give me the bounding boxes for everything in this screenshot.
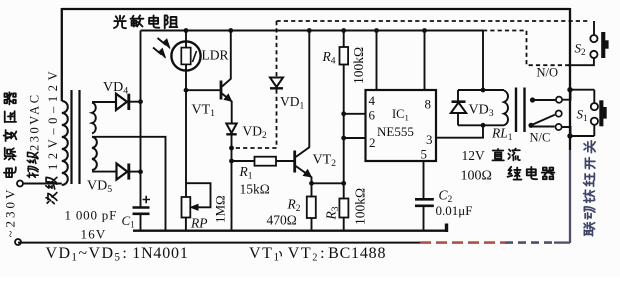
- svg-text:12V: 12V: [462, 148, 486, 163]
- svg-text:6: 6: [369, 108, 376, 123]
- svg-text:4: 4: [369, 93, 376, 108]
- svg-text:0.01μF: 0.01μF: [436, 203, 473, 218]
- wire VT2 emitter node: [312, 182, 344, 184]
- svg-text:470Ω: 470Ω: [267, 213, 297, 228]
- label ciji (secondary) rotated: [46, 193, 57, 204]
- svg-text:~230V: ~230V: [3, 187, 18, 238]
- wire primary bottom to terminal: [23, 183, 62, 185]
- relay core: [516, 88, 525, 133]
- wire bottom ground rail: [133, 230, 447, 232]
- transistor VT1: [220, 81, 223, 100]
- relay contact arm and N/C: [528, 123, 533, 128]
- ground stub rail end: [445, 224, 448, 233]
- terminal ~230V lower: [15, 239, 21, 245]
- diode VD4: [116, 94, 127, 110]
- photoresistor LDR: [185, 31, 187, 42]
- node VD4/VD5 junction vertical: [140, 31, 142, 173]
- wire VD4 to node: [128, 101, 141, 103]
- svg-text:N/C: N/C: [530, 131, 551, 145]
- label dianyuan bianyaqi (power transformer) rotated: [4, 167, 16, 177]
- wire LDR bottom to VT1 base: [186, 71, 220, 91]
- capacitor C2: [415, 198, 434, 201]
- resistor R1: [232, 160, 255, 162]
- wire +12V down to relay: [482, 31, 484, 91]
- LDR light arrows: [158, 38, 167, 45]
- label guangmin dianzu (photoresistor): [114, 15, 177, 28]
- svg-text:100kΩ: 100kΩ: [353, 188, 368, 225]
- label zhiliu (DC): [492, 149, 519, 161]
- wire dashed trigger rail: [277, 20, 591, 22]
- svg-text:1MΩ: 1MΩ: [213, 195, 228, 223]
- wire secondary top to VD4: [92, 101, 116, 103]
- node B (N/C, S1, bus): [567, 133, 572, 138]
- transformer core: [72, 90, 80, 184]
- resistor R4: [341, 28, 346, 33]
- svg-text:N/O: N/O: [537, 66, 559, 80]
- pushbutton S2: [590, 35, 597, 42]
- resistor R3: [343, 183, 345, 198]
- potentiometer RP: [185, 90, 187, 197]
- wire VD5 to node: [129, 171, 141, 173]
- svg-text:12V–0–12V: 12V–0–12V: [46, 67, 60, 170]
- resistor R2: [311, 183, 313, 197]
- pushbutton S1: [593, 90, 595, 103]
- relay coil RL1: [504, 91, 508, 126]
- wire pin8: [424, 31, 426, 91]
- transformer T secondary bottom winding: [92, 137, 97, 170]
- diode VD1: [270, 78, 283, 88]
- wire secondary center tap: [92, 137, 166, 231]
- svg-text:1 000 pF: 1 000 pF: [65, 208, 118, 223]
- wire dashed relay-S2 link: [483, 31, 569, 66]
- wire RP wiper loop: [186, 183, 211, 207]
- svg-text:5: 5: [421, 147, 428, 162]
- svg-text:15kΩ: 15kΩ: [240, 182, 270, 197]
- op-amp U1 IC1 NE555 box: [366, 90, 437, 161]
- svg-text:NE555: NE555: [377, 124, 414, 139]
- svg-text:3: 3: [426, 132, 433, 147]
- diode VD2: [226, 124, 236, 134]
- wire left vertical to primary: [61, 8, 63, 101]
- svg-text:230VAC: 230VAC: [28, 92, 42, 151]
- svg-text:RP: RP: [190, 216, 208, 231]
- wire +12V rail: [141, 30, 484, 32]
- wire S2 bottom return: [568, 58, 594, 65]
- wire secondary bottom to VD5: [92, 171, 117, 173]
- diode VD5: [117, 164, 128, 180]
- wire dashed S2 drop: [593, 21, 595, 35]
- capacitor C1 electrolytic: [140, 171, 142, 207]
- relay contact N/O: [530, 97, 535, 102]
- ideographic comma in caption: [280, 252, 282, 256]
- transistor VT2: [293, 151, 296, 173]
- svg-text:LDR: LDR: [202, 48, 229, 63]
- svg-text:8: 8: [425, 97, 432, 112]
- svg-text:2: 2: [369, 135, 376, 150]
- diode VD3: [458, 90, 504, 125]
- svg-text:100kΩ: 100kΩ: [351, 47, 366, 84]
- wire right vertical (switch bus): [569, 8, 571, 150]
- wire bottom AC line (partly colored): [18, 242, 420, 244]
- terminal ~230V upper: [17, 181, 23, 187]
- label liandong anniu kaiguan (interlocked pushbutton) rotated blue: [584, 223, 595, 236]
- svg-text:16V: 16V: [81, 227, 107, 242]
- wire top AC rail: [62, 8, 570, 10]
- transformer T secondary top winding: [92, 103, 96, 134]
- wire pin6 tap: [344, 113, 366, 115]
- wire dashed VD1 branch: [234, 21, 277, 148]
- label chuji (primary) rotated: [27, 166, 38, 177]
- node A (N/O, S1, bus): [567, 87, 572, 92]
- svg-text:100Ω: 100Ω: [461, 169, 492, 184]
- wire pin5 to C2: [423, 161, 425, 199]
- wire pin3 to relay: [436, 125, 483, 137]
- wire pin4: [376, 31, 378, 91]
- wire pin2 tap: [344, 137, 366, 139]
- label jidianqi (relay): [508, 167, 555, 180]
- transformer T primary winding: [62, 101, 68, 185]
